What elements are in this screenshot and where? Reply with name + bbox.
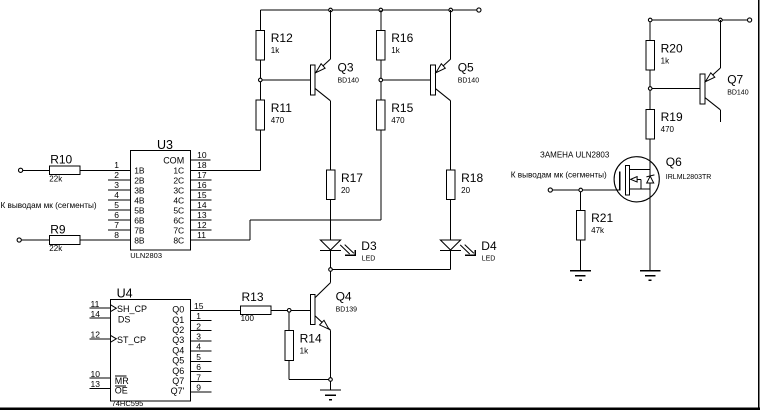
wire (652, 88, 700, 90)
wire (190, 169, 260, 171)
wire (383, 79, 431, 81)
svg-text:13: 13 (91, 379, 101, 389)
svg-text:COM: COM (163, 156, 184, 166)
wire (719, 110, 721, 122)
svg-text:Q5: Q5 (458, 61, 474, 75)
wire (288, 360, 290, 379)
svg-text:Q6: Q6 (666, 155, 682, 169)
node (329, 378, 333, 382)
wire (190, 309, 240, 311)
svg-text:R17: R17 (341, 171, 363, 185)
svg-text:6: 6 (196, 362, 201, 372)
wire (262, 79, 310, 81)
svg-text:R10: R10 (50, 153, 72, 167)
svg-text:BD140: BD140 (458, 78, 480, 85)
resistor R16 (377, 30, 414, 60)
svg-text:22k: 22k (49, 244, 63, 253)
transistor Q4 (310, 283, 357, 331)
resistor R20 (646, 41, 683, 71)
svg-text:18: 18 (197, 160, 207, 170)
svg-text:16: 16 (197, 180, 207, 190)
svg-text:LED: LED (362, 256, 376, 263)
resistor R21 (576, 210, 613, 240)
resistor R15 (377, 100, 414, 130)
node (329, 268, 333, 272)
node (719, 18, 723, 22)
svg-text:Q3: Q3 (338, 61, 354, 75)
resistor R13 (241, 290, 272, 323)
wire (649, 70, 651, 88)
svg-text:Q1: Q1 (172, 315, 184, 325)
node (259, 78, 263, 82)
wire (380, 82, 382, 100)
svg-text:DS: DS (118, 314, 131, 324)
wire (650, 19, 747, 21)
svg-text:Q2: Q2 (172, 325, 184, 335)
svg-text:R21: R21 (591, 211, 613, 225)
svg-text:R16: R16 (391, 31, 413, 45)
svg-text:ЗАМЕНА ULN2803: ЗАМЕНА ULN2803 (540, 151, 610, 160)
svg-text:BD139: BD139 (336, 307, 358, 314)
svg-text:14: 14 (91, 309, 101, 319)
svg-text:BD140: BD140 (338, 78, 360, 85)
wire (649, 90, 651, 109)
U4 clock input chevron (110, 305, 116, 312)
wire (649, 22, 651, 41)
wire (380, 60, 382, 80)
svg-text:11: 11 (91, 299, 100, 309)
terminal (19, 168, 23, 172)
wire (249, 220, 251, 240)
svg-text:4B: 4B (134, 195, 145, 205)
svg-text:BD140: BD140 (727, 90, 749, 97)
svg-text:U4: U4 (117, 286, 133, 300)
svg-text:1k: 1k (391, 46, 400, 55)
svg-text:R12: R12 (271, 31, 293, 45)
svg-text:15: 15 (197, 190, 207, 200)
svg-text:D4: D4 (481, 239, 497, 253)
svg-text:6C: 6C (173, 215, 184, 225)
wire (289, 379, 329, 381)
svg-text:4: 4 (196, 342, 201, 352)
U4 pins right (171, 301, 212, 396)
svg-text:7B: 7B (134, 225, 145, 235)
svg-text:Q5: Q5 (172, 356, 184, 366)
svg-text:74HC595: 74HC595 (112, 399, 144, 408)
svg-text:470: 470 (391, 116, 405, 125)
svg-text:13: 13 (197, 210, 207, 220)
terminal (477, 8, 481, 12)
wire (250, 219, 381, 221)
wire (330, 250, 332, 267)
U4 clock input chevron (110, 335, 116, 342)
wire (580, 192, 582, 211)
svg-text:R13: R13 (242, 290, 264, 304)
svg-text:5: 5 (196, 352, 201, 362)
svg-text:R19: R19 (661, 110, 683, 124)
node (379, 78, 383, 82)
U3 pin stubs right (190, 150, 211, 240)
terminal (548, 188, 552, 192)
svg-text:7C: 7C (173, 225, 184, 235)
diode D4 (440, 239, 497, 262)
transistor Q3 (311, 10, 360, 101)
svg-text:2B: 2B (134, 175, 145, 185)
svg-text:Q3: Q3 (172, 335, 184, 345)
svg-text:6: 6 (114, 210, 119, 220)
resistor R18 (446, 170, 483, 200)
svg-text:Q4: Q4 (336, 290, 352, 304)
svg-text:8B: 8B (134, 235, 145, 245)
wire (332, 269, 450, 271)
node (648, 18, 652, 22)
wire (330, 271, 332, 282)
svg-text:IRLML2803TR: IRLML2803TR (666, 174, 712, 181)
svg-text:8: 8 (114, 230, 119, 240)
svg-text:20: 20 (461, 186, 470, 195)
svg-text:4: 4 (114, 190, 119, 200)
wire (649, 139, 651, 271)
svg-text:3: 3 (114, 180, 119, 190)
U3 pin stubs left (108, 160, 130, 240)
wire (23, 169, 131, 171)
wire (330, 330, 332, 377)
svg-text:6B: 6B (134, 215, 145, 225)
svg-text:Q7: Q7 (172, 376, 184, 386)
resistor R17 (326, 170, 363, 200)
wire (259, 10, 261, 30)
U4 pins left (90, 299, 111, 389)
svg-text:10: 10 (197, 150, 207, 160)
wire (271, 309, 287, 311)
svg-text:Q0: Q0 (172, 305, 184, 315)
svg-text:2C: 2C (173, 175, 184, 185)
svg-text:2: 2 (114, 170, 119, 180)
svg-text:R9: R9 (50, 222, 66, 236)
svg-text:22k: 22k (49, 175, 63, 184)
svg-text:R11: R11 (271, 101, 292, 115)
IC U3 ULN2803 (130, 138, 190, 260)
node (287, 309, 291, 313)
svg-text:7: 7 (196, 372, 201, 382)
svg-text:3C: 3C (173, 185, 184, 195)
wire (330, 101, 332, 170)
wire (580, 240, 582, 271)
resistor R12 (256, 30, 293, 60)
svg-text:R18: R18 (461, 171, 483, 185)
svg-text:R14: R14 (300, 332, 322, 346)
svg-text:1: 1 (196, 311, 201, 321)
svg-text:10: 10 (91, 369, 101, 379)
svg-text:Q6: Q6 (172, 366, 184, 376)
wire (291, 309, 310, 311)
wire (259, 60, 261, 80)
svg-text:LED: LED (482, 256, 496, 263)
svg-text:Q7': Q7' (171, 386, 185, 396)
svg-text:ULN2803: ULN2803 (130, 251, 162, 260)
ground (570, 271, 591, 281)
svg-text:14: 14 (197, 200, 207, 210)
IC U4 74HC595 (110, 286, 190, 408)
wire (21, 239, 130, 241)
node (449, 8, 453, 12)
terminal (17, 238, 21, 242)
wire (259, 82, 261, 100)
svg-text:OE: OE (115, 386, 128, 396)
svg-text:1C: 1C (173, 165, 184, 175)
svg-text:470: 470 (271, 116, 285, 125)
transistor Q6 MOSFET (614, 155, 711, 202)
svg-text:11: 11 (197, 230, 206, 240)
svg-text:1k: 1k (661, 56, 670, 65)
svg-text:3: 3 (196, 332, 201, 342)
wire (450, 250, 452, 269)
svg-text:U3: U3 (157, 138, 173, 152)
node (329, 8, 333, 12)
wire (260, 9, 477, 11)
svg-text:2: 2 (196, 321, 201, 331)
svg-text:К выводам мк (сегменты): К выводам мк (сегменты) (1, 201, 97, 210)
svg-text:5B: 5B (134, 205, 145, 215)
wire (190, 239, 250, 241)
svg-text:4C: 4C (173, 195, 184, 205)
svg-text:1B: 1B (134, 165, 145, 175)
svg-text:7: 7 (114, 220, 119, 230)
svg-text:20: 20 (341, 186, 350, 195)
wire (380, 130, 382, 220)
wire (450, 101, 452, 170)
svg-text:5C: 5C (173, 205, 184, 215)
svg-text:470: 470 (661, 125, 675, 134)
svg-text:12: 12 (197, 220, 207, 230)
resistor R10 (49, 153, 80, 184)
svg-text:47k: 47k (591, 226, 605, 235)
resistor R19 (646, 109, 683, 139)
svg-text:D3: D3 (361, 239, 377, 253)
svg-text:17: 17 (197, 170, 207, 180)
node (648, 87, 652, 91)
resistor R14 (285, 331, 322, 361)
svg-text:1: 1 (114, 160, 119, 170)
wire (380, 10, 382, 30)
terminal (748, 18, 752, 22)
node (379, 8, 383, 12)
svg-text:100: 100 (241, 314, 255, 323)
transistor Q5 (431, 10, 480, 101)
svg-text:Q7: Q7 (727, 73, 743, 87)
node (579, 188, 583, 192)
wire (288, 312, 290, 331)
svg-text:SH_CP: SH_CP (117, 304, 147, 314)
wire (552, 189, 619, 191)
svg-text:3B: 3B (134, 185, 145, 195)
svg-text:12: 12 (91, 329, 101, 339)
svg-text:Q4: Q4 (172, 345, 184, 355)
svg-text:R15: R15 (391, 101, 413, 115)
resistor R9 (49, 222, 80, 253)
wire (330, 200, 332, 240)
wire (450, 200, 452, 240)
resistor R11 (256, 100, 292, 130)
svg-text:15: 15 (194, 301, 204, 311)
svg-text:R20: R20 (661, 41, 683, 55)
svg-text:К выводам мк (сегменты): К выводам мк (сегменты) (511, 170, 607, 179)
diode D3 (320, 239, 377, 262)
svg-text:9: 9 (196, 383, 201, 393)
svg-text:1k: 1k (271, 46, 280, 55)
svg-text:5: 5 (114, 200, 119, 210)
svg-text:8C: 8C (173, 235, 184, 245)
ground (640, 271, 661, 281)
svg-text:1k: 1k (300, 347, 309, 356)
ground (320, 381, 341, 399)
svg-text:ST_CP: ST_CP (117, 335, 146, 345)
wire (259, 130, 261, 171)
transistor Q7 (700, 20, 749, 110)
